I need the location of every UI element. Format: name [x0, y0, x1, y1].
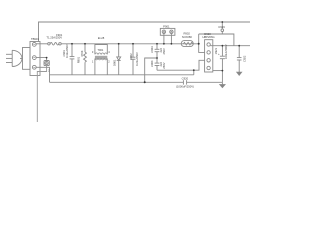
bridge pin 3	[207, 59, 210, 62]
capacitor C902	[131, 44, 136, 75]
svg-text:P901: P901	[163, 25, 170, 29]
wire dc minus stub	[213, 70, 223, 72]
text labels	[31, 25, 246, 89]
wire rail N riser	[193, 70, 195, 75]
terminal 2	[32, 56, 36, 60]
bridge rectifier D920 box	[205, 40, 213, 72]
svg-text:1: 1	[92, 59, 94, 63]
capacitor C919	[221, 22, 224, 34]
svg-text:470K: 470K	[80, 50, 84, 56]
capacitor C901	[70, 44, 75, 75]
svg-text:SCK080: SCK080	[182, 35, 193, 39]
capacitor C903	[155, 44, 160, 58]
bridge pin 4	[207, 66, 210, 69]
wire choke right leg	[106, 59, 108, 75]
svg-text:(1000uF/250V): (1000uF/250V)	[176, 84, 194, 88]
connector P901 pin1	[162, 30, 165, 44]
svg-text:250V: 250V	[162, 48, 166, 54]
arrow chassis C921	[220, 82, 225, 87]
connector P901 box	[160, 28, 175, 35]
svg-text:C902: C902	[129, 53, 133, 60]
fuse F901	[48, 43, 62, 46]
wire rail N	[50, 74, 194, 76]
capacitor C920 inline	[183, 80, 186, 84]
thermistor R902	[181, 41, 193, 47]
wire rail Y to bridge	[157, 60, 205, 70]
svg-text:2: 2	[108, 59, 110, 63]
svg-text:T901: T901	[97, 48, 103, 52]
capacitor C921	[220, 46, 225, 83]
svg-text:C919: C919	[218, 25, 225, 29]
svg-text:0.33u/250V: 0.33u/250V	[65, 44, 69, 58]
arrow chassis C922	[237, 72, 242, 75]
chassis cap symbol	[44, 61, 49, 66]
terminal 3	[32, 65, 36, 69]
AC plug cord link	[20, 57, 23, 59]
svg-text:C904: C904	[150, 60, 154, 67]
wire dc plus out	[210, 45, 250, 47]
choke core	[95, 55, 107, 57]
svg-text:250V: 250V	[162, 62, 166, 68]
wire top rail	[39, 22, 251, 42]
AC plug prongs	[6, 54, 12, 62]
svg-text:0.22u/250V: 0.22u/250V	[135, 52, 139, 66]
wire live riser to bridge ac	[199, 34, 205, 52]
svg-text:4: 4	[108, 50, 110, 54]
svg-text:C903: C903	[150, 46, 154, 53]
svg-text:D901: D901	[112, 59, 116, 66]
capacitor C904	[155, 58, 160, 70]
junction dots	[46, 21, 240, 83]
AC plug cord box	[23, 48, 31, 70]
wire Y-cap midpoint branch	[145, 58, 157, 82]
svg-text:T1.25A/250V: T1.25A/250V	[46, 36, 62, 40]
bridge pin 1	[207, 43, 210, 46]
svg-text:HBP206G: HBP206G	[202, 35, 214, 39]
svg-text:C920: C920	[182, 76, 189, 80]
capacitor C922	[237, 46, 242, 72]
bridge pin 2	[207, 51, 210, 54]
resistor R901	[84, 44, 87, 75]
svg-text:+: +	[218, 52, 220, 56]
wire terminal2 to chassis symbol	[36, 58, 46, 61]
wire choke left leg	[94, 59, 96, 75]
wire c919 top link	[199, 34, 234, 46]
connector P901 pin2	[170, 30, 173, 44]
wire terminal3 to rails	[36, 67, 49, 82]
AC plug body	[12, 50, 22, 66]
wire rail B	[50, 81, 184, 83]
terminal block TB901	[30, 42, 40, 76]
wire live wire1	[36, 43, 48, 45]
svg-text:3: 3	[92, 50, 94, 54]
svg-text:100uF/400V: 100uF/400V	[224, 44, 228, 59]
wire chassis down-left-down	[37, 66, 46, 122]
svg-text:C922: C922	[242, 55, 246, 62]
choke T901 box with winding	[95, 45, 107, 55]
diode D901	[117, 44, 121, 75]
svg-text:TB901: TB901	[31, 37, 39, 41]
svg-text:EI-28: EI-28	[98, 36, 105, 40]
choke bottom winding	[95, 59, 107, 60]
terminal 1	[32, 43, 36, 47]
